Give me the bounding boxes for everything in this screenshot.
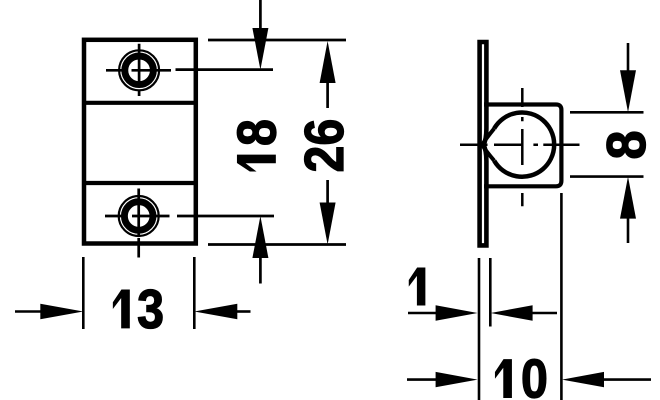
- dim 8 top arrow: [620, 70, 636, 112]
- svg-text:8: 8: [596, 130, 658, 159]
- dim 18 bottom arrow: [252, 216, 268, 258]
- dim 26 bottom extension line: [208, 243, 346, 246]
- hole top horizontal centerline: [106, 68, 273, 71]
- ball housing outline: [484, 105, 561, 187]
- dim 1 right leader line: [531, 312, 557, 315]
- dim text 18: [225, 119, 287, 171]
- dim 26 bottom arrow: [320, 203, 336, 245]
- dim 10 right leader line: [602, 378, 651, 381]
- dim 8 bottom arrow: [620, 177, 636, 219]
- svg-text:26: 26: [293, 119, 355, 173]
- dim 26 line lower segment: [326, 180, 329, 206]
- dim 26 line upper segment: [326, 79, 329, 108]
- dim 13 left leader line: [15, 310, 44, 313]
- dim 1 left arrow: [436, 305, 478, 320]
- dim text 13: [113, 290, 129, 328]
- dim 13 right arrow: [194, 304, 237, 319]
- dim 10 right arrow: [562, 372, 604, 387]
- dim 10 left arrow: [436, 372, 478, 387]
- dim 18 top arrow: [252, 28, 268, 70]
- hole bottom horizontal centerline: [105, 215, 274, 218]
- dim text 10: [496, 360, 512, 398]
- dim text 26: [293, 119, 355, 173]
- hole bottom countersink circle: [119, 196, 159, 236]
- dim 10 right extension line (housing right edge): [560, 193, 563, 400]
- svg-text:0: 0: [521, 348, 548, 400]
- front view plate outline: [84, 40, 196, 244]
- dim 13 left arrow: [40, 304, 83, 319]
- dim 10 left leader line: [407, 378, 439, 381]
- dim 8 top extension line: [570, 111, 644, 114]
- dim 26 top extension line: [208, 39, 346, 42]
- dim 18 top leader line: [259, 0, 262, 30]
- dim 1 right arrow: [491, 305, 533, 320]
- hole bottom bore (bold ring): [124, 202, 153, 231]
- dim text 1: [409, 268, 425, 305]
- dim 18 bottom leader line: [259, 256, 262, 284]
- dim 8 bottom extension line: [570, 175, 644, 178]
- hole bottom vertical centerline: [137, 189, 140, 258]
- dim 8 top leader line: [627, 43, 630, 72]
- svg-text:8: 8: [225, 119, 287, 146]
- side view flat plate outline: [480, 42, 487, 245]
- dim 13 right extension line: [193, 257, 196, 329]
- ball circle (left side open at pinch): [494, 112, 554, 176]
- dim text 8: [596, 130, 658, 159]
- dim 1 left extension line (plate left edge): [478, 258, 481, 400]
- hole top bore (bold ring): [125, 56, 154, 85]
- divider line lower: [84, 181, 196, 185]
- dim 1 left leader line: [408, 312, 439, 315]
- dim 26 top arrow: [320, 41, 336, 83]
- pinch ball edge curves: [482, 129, 494, 161]
- side view vertical centerline: [521, 88, 524, 206]
- hole top vertical centerline: [138, 44, 141, 96]
- dim 1 right extension line (plate right edge): [489, 258, 492, 327]
- svg-text:3: 3: [137, 278, 164, 340]
- hole top countersink circle: [119, 50, 159, 90]
- dim 13 left extension line: [82, 257, 85, 329]
- divider line upper: [84, 101, 196, 105]
- side view horizontal centerline: [460, 144, 580, 147]
- dim 13 right leader line: [235, 310, 250, 313]
- dim 8 bottom leader line: [627, 217, 630, 243]
